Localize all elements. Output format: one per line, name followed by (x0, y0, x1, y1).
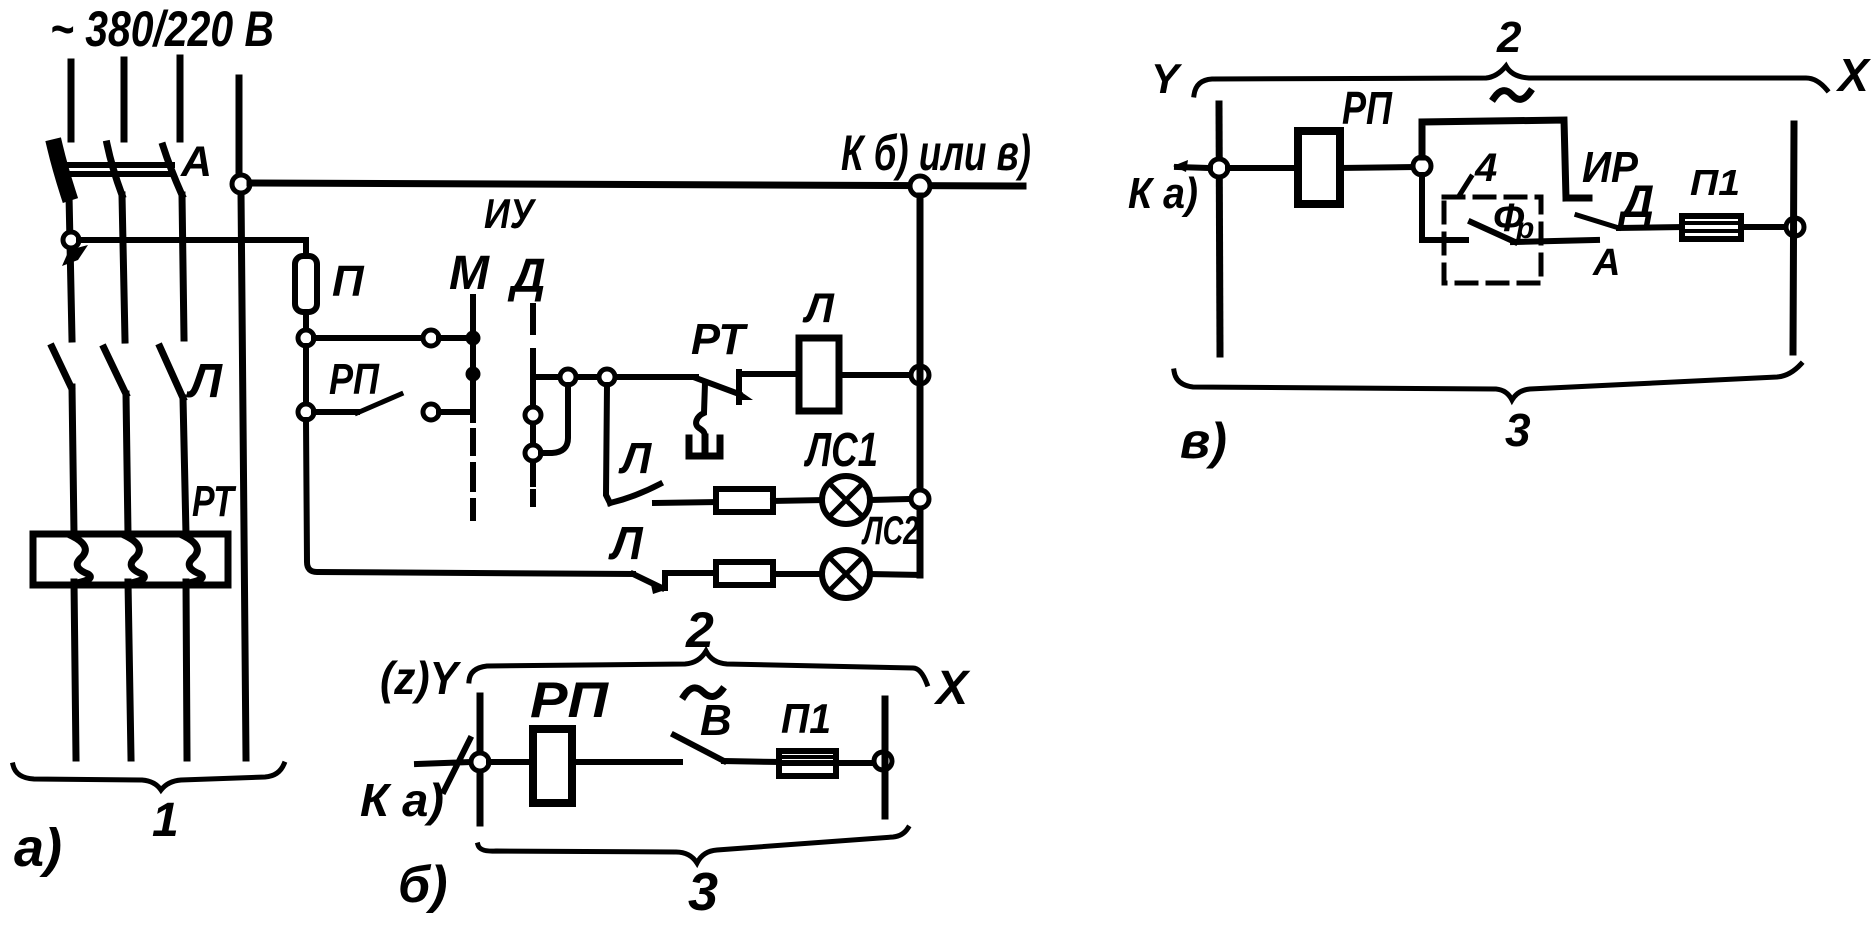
node on N line (top wire tap) (232, 175, 250, 193)
fuse P (295, 256, 317, 312)
coil L (799, 338, 839, 411)
wire node to coil (489, 759, 533, 765)
label ~ (v) (1494, 91, 1530, 100)
brace 3 (section b bottom) (478, 828, 908, 863)
arrow mark below tap (62, 245, 88, 266)
wire coil to node (v) (1340, 167, 1413, 168)
wire M-row (314, 335, 424, 341)
svg-text:А: А (1592, 242, 1620, 284)
resistor LS1 (716, 489, 773, 512)
svg-text:а): а) (14, 818, 62, 878)
switch V blade (674, 735, 724, 761)
contactor L pole blade 3 (160, 347, 183, 398)
dashed link D lower (530, 492, 536, 504)
contact IR/D blade (1577, 215, 1619, 228)
svg-text:ЛС2: ЛС2 (861, 509, 919, 553)
wire phase L3 top stub (177, 58, 184, 139)
brace 2 (v top) (1194, 66, 1827, 95)
RT reset bracket (689, 437, 720, 456)
contactor L pole blade 2 (104, 348, 126, 394)
wire LS2 to bus (870, 574, 920, 575)
svg-text:X: X (1835, 49, 1871, 101)
svg-text:ИУ: ИУ (484, 190, 537, 237)
box 4 dashed (1444, 197, 1541, 283)
wire LS1 mid (773, 500, 822, 501)
wire v lead-in (1177, 167, 1210, 168)
wire M-row right (439, 335, 468, 341)
node coil row a (560, 369, 576, 385)
lamp LS1 (822, 476, 870, 524)
svg-text:П1: П1 (1690, 162, 1740, 203)
breaker A pole-2 blade (107, 144, 122, 195)
svg-text:~ 380/220 В: ~ 380/220 В (50, 1, 274, 57)
fuse P1 (b) (779, 751, 836, 776)
node coil row b (599, 369, 615, 385)
wire vertical fuse-node to RP-node (303, 346, 309, 404)
breaker A pole-3 blade (163, 146, 182, 195)
svg-text:К а): К а) (1128, 169, 1198, 218)
wire phase L1 lower (69, 195, 76, 758)
node RP-row left (298, 404, 314, 420)
node under fuse (298, 330, 314, 346)
svg-text:П1: П1 (781, 695, 831, 742)
node b right (874, 752, 892, 770)
wire v top branch (1422, 120, 1589, 198)
svg-text:в): в) (1180, 413, 1227, 469)
right bus vertical (917, 196, 924, 575)
wire switch to fuse (724, 761, 779, 762)
svg-text:Д: Д (507, 250, 546, 303)
wire blade to fuse (1619, 227, 1682, 228)
wire fuse to node (836, 760, 874, 766)
wire control feeder (79, 240, 306, 256)
label ~ (b) (684, 688, 722, 697)
svg-text:ЛС1: ЛС1 (804, 424, 878, 477)
leader 4 (1459, 177, 1471, 196)
coil RP (b) (533, 729, 572, 803)
wire phase L2 top stub (121, 60, 128, 139)
brace 1 (section a) (13, 764, 284, 790)
node L1 control tap (63, 232, 79, 248)
svg-text:Л: Л (618, 434, 652, 483)
wire RT to coil (739, 372, 799, 402)
wire fuse to node (303, 312, 309, 330)
svg-text:РТ: РТ (192, 477, 236, 526)
contact RT blade (696, 378, 739, 394)
wire b left vertical (477, 696, 484, 823)
brace 3 (v bottom) (1174, 364, 1801, 400)
wire Fr out (1513, 240, 1597, 242)
fuse P1 (v) (1682, 216, 1741, 239)
wire fuse to node (v) (1741, 224, 1786, 230)
RT heater 1 (72, 536, 90, 583)
svg-text:К а): К а) (360, 774, 444, 826)
svg-text:РП: РП (329, 355, 380, 404)
node v left (1210, 159, 1228, 177)
svg-text:РП: РП (530, 672, 609, 728)
node b left (471, 753, 489, 771)
RT trip linkage (696, 383, 705, 438)
node coil bus (911, 366, 929, 384)
contact L (LS1) vertical (606, 385, 610, 503)
node LS1 bus (911, 490, 929, 508)
wire RP-row left (314, 409, 357, 415)
junction dot M top (466, 331, 481, 346)
wire LS2 riser (665, 573, 716, 588)
contact RT arrow tip (737, 389, 753, 400)
svg-text:Л: Л (608, 517, 644, 569)
svg-text:(z)Y: (z)Y (380, 652, 462, 704)
node D upper (525, 407, 541, 423)
svg-text:Y: Y (1151, 55, 1183, 102)
wire b lead-in with slash (417, 739, 471, 791)
svg-text:РП: РП (1342, 82, 1393, 134)
wire LS2 feeder drop (306, 420, 633, 574)
svg-text:РТ: РТ (691, 315, 748, 364)
junction dot M bottom (466, 367, 481, 382)
wire v right vertical (1793, 124, 1794, 352)
svg-text:К б) или в): К б) или в) (841, 125, 1031, 181)
wire v bottom branch (1422, 175, 1466, 240)
wire phase L1 top stub (68, 62, 75, 139)
node M-row mid (423, 330, 439, 346)
wire b right vertical (882, 699, 889, 816)
wire phase L2 lower (122, 195, 131, 758)
svg-text:2: 2 (685, 602, 714, 658)
dashed link D upper (530, 306, 536, 332)
wire LS2 mid (773, 571, 822, 577)
dashed link M (470, 297, 476, 518)
wire top bus to K b) or v) (250, 183, 1023, 186)
wire coil to switch (572, 759, 680, 765)
wire D bypass link (541, 385, 568, 453)
svg-text:3: 3 (688, 862, 718, 922)
thermal relay RT block (33, 534, 228, 585)
contact RP blade (357, 394, 401, 413)
svg-text:3: 3 (1505, 404, 1531, 456)
contact L blade LS1 (610, 484, 660, 503)
wire v left vertical (1219, 104, 1220, 354)
node v mid (1413, 157, 1431, 175)
svg-text:П: П (332, 257, 365, 306)
svg-text:2: 2 (1496, 13, 1522, 62)
node D lower (525, 445, 541, 461)
breaker A pole-1 blade with handle (55, 147, 68, 193)
svg-text:1: 1 (152, 794, 179, 847)
wire coil row from D (533, 374, 696, 380)
svg-text:б): б) (398, 856, 448, 914)
wire RP-row to M link (439, 409, 470, 415)
RT heater 3 (184, 536, 202, 583)
svg-text:А: А (180, 138, 212, 186)
svg-text:Д: Д (1617, 175, 1654, 227)
node RP-row right (423, 404, 439, 420)
resistor LS2 (716, 562, 773, 585)
contact L blade LS2 (633, 574, 662, 588)
wire neutral N (239, 78, 246, 758)
contact D bar (530, 351, 536, 484)
RT heater 2 (126, 536, 144, 583)
node v right (1786, 218, 1804, 236)
coil RP (v) (1298, 131, 1340, 204)
wire LS1 to bus (870, 499, 911, 500)
wire node to coil (v) (1228, 165, 1298, 171)
contact LS2 arrow tip (650, 580, 665, 594)
wire LS1 left (655, 502, 716, 503)
node K b) junction (910, 176, 930, 196)
svg-text:Л: Л (802, 284, 835, 331)
svg-text:X: X (933, 662, 971, 715)
svg-text:Л: Л (186, 355, 223, 408)
wire coil to bus (839, 372, 911, 378)
wire phase L3 lower (182, 195, 187, 758)
lamp LS2 (822, 550, 870, 598)
contact Fr blade (1471, 222, 1515, 242)
svg-text:М: М (449, 247, 490, 300)
svg-text:В: В (700, 696, 732, 745)
brace 2 (section b top) (469, 651, 927, 684)
svg-text:4: 4 (1474, 146, 1497, 190)
breaker A linkage double bar (64, 165, 172, 174)
contactor L pole blade 1 (52, 347, 71, 387)
